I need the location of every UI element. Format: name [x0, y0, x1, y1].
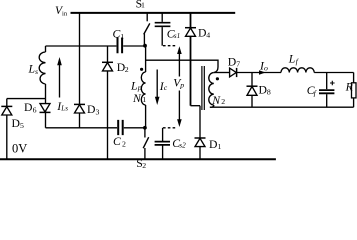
wire D2 drop (C1 line to bottom rail) [107, 46, 109, 159]
svg-text:C: C [113, 135, 121, 148]
capacitor Cs2 (snubber of S2) [155, 128, 186, 159]
wire jog to D1 [191, 105, 201, 107]
svg-text:N: N [132, 92, 142, 105]
svg-text:1: 1 [218, 142, 222, 151]
svg-text:D: D [12, 117, 20, 130]
capacitor Cs1 (snubber of S1) [155, 13, 181, 46]
svg-text:D: D [228, 55, 236, 68]
wire D5 drop [6, 99, 8, 159]
svg-text:C: C [113, 28, 121, 41]
dashed reference bottom [163, 127, 177, 129]
svg-text:0V: 0V [12, 142, 27, 156]
svg-text:2: 2 [142, 161, 146, 170]
diode D6 (points down) [24, 101, 51, 114]
svg-text:N: N [211, 94, 221, 107]
svg-text:p: p [137, 83, 142, 92]
wire node A vertical with magnetizing winding [145, 46, 147, 72]
svg-text:1: 1 [120, 32, 124, 41]
diode D4 (points up) [185, 26, 210, 39]
capacitor Cf output [307, 73, 335, 108]
svg-text:o: o [264, 64, 268, 73]
wire top rail Vin [71, 12, 236, 14]
wire secondary top line to D7 [214, 72, 230, 74]
phasing dot N2 [216, 77, 219, 80]
wire bottom rail 0V [0, 158, 276, 160]
svg-text:D: D [24, 101, 32, 114]
svg-text:s: s [35, 67, 38, 76]
svg-text:c: c [164, 83, 168, 92]
diode D7 (points right) [228, 55, 240, 77]
capacitor C1 [113, 28, 125, 54]
svg-text:1: 1 [142, 95, 146, 104]
arrow ILs current (up) [59, 64, 61, 98]
winding Lp N1 (primary, bumps bulge left) [141, 72, 145, 105]
node Vin label [55, 5, 68, 17]
svg-text:s1: s1 [174, 32, 180, 40]
svg-text:8: 8 [267, 88, 271, 97]
wire output top line [236, 72, 353, 74]
svg-text:6: 6 [33, 105, 37, 114]
phasing dot N1 [140, 68, 143, 71]
svg-text:R: R [345, 81, 353, 94]
diode D3 [74, 103, 100, 116]
inductor Ls (bumps bulge left) [39, 46, 45, 99]
transformer core [202, 66, 204, 110]
wire D6 drop [45, 99, 47, 128]
svg-text:p: p [179, 81, 184, 90]
svg-text:7: 7 [236, 59, 240, 68]
inductor Lf (bumps up) [281, 68, 314, 73]
svg-text:D: D [87, 103, 95, 116]
arrow Vp (double headed) [178, 50, 180, 123]
switch S1 [136, 0, 150, 46]
svg-text:L: L [130, 79, 138, 92]
wire D4/D1 vertical [190, 13, 192, 106]
arrow Io on wire [259, 70, 266, 75]
diode D5 (points up, bar on top) [1, 106, 24, 130]
wire input left drop (rail to clamp line through D3) [79, 13, 81, 128]
switch S2 [136, 128, 148, 170]
capacitor C2 [113, 120, 126, 148]
wire snubber horizontal y=98 [7, 98, 46, 100]
svg-text:L: L [288, 52, 296, 65]
svg-text:s2: s2 [179, 142, 186, 150]
svg-text:4: 4 [206, 31, 210, 40]
svg-text:1: 1 [141, 0, 145, 9]
svg-text:2: 2 [122, 139, 126, 148]
wire C1 line y=46 [46, 45, 146, 47]
svg-text:2: 2 [125, 65, 129, 74]
svg-text:2: 2 [221, 97, 225, 106]
node A junction dot [143, 44, 147, 48]
svg-text:5: 5 [20, 121, 24, 130]
svg-text:D: D [209, 138, 217, 151]
svg-text:in: in [62, 10, 68, 17]
node 0V label [12, 142, 27, 156]
resistor R load [345, 73, 356, 108]
diode D2 (points up) [102, 61, 129, 74]
svg-text:D: D [198, 26, 206, 39]
dashed reference top [163, 45, 177, 47]
node B junction dot [143, 126, 147, 130]
wire output bottom line [210, 106, 354, 108]
winding N2 (secondary, bumps bulge left) [209, 73, 214, 105]
diode D8 (freewheel, points up) [247, 73, 271, 108]
svg-text:3: 3 [96, 107, 100, 116]
svg-text:Ls: Ls [60, 104, 68, 112]
arrow Ic current (down) [156, 70, 158, 98]
wire clamp line y=127.6 [46, 127, 146, 129]
wire link node A to secondary top (y=60.5) [146, 60, 218, 72]
svg-text:D: D [259, 84, 267, 97]
diode D1 (points up) [195, 138, 222, 151]
svg-text:L: L [28, 63, 36, 76]
wire D1 drop [199, 106, 201, 159]
